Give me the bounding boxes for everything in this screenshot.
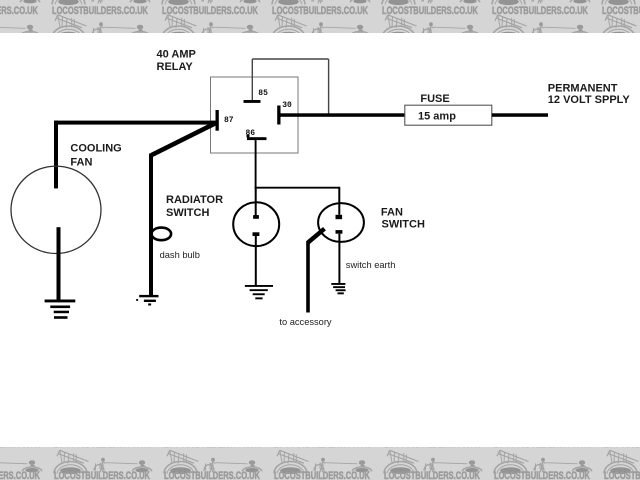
svg-text:LOCOSTBUILDERS.CO.UK: LOCOSTBUILDERS.CO.UK — [272, 3, 368, 16]
svg-text:FUSE: FUSE — [420, 93, 449, 105]
wire pin 86 down — [255, 140, 257, 188]
wire into radiator thermo switch S1 — [255, 188, 257, 216]
svg-text:85: 85 — [258, 89, 268, 98]
svg-text:12 VOLT SPPLY: 12 VOLT SPPLY — [548, 94, 631, 106]
svg-text:87: 87 — [224, 116, 234, 125]
wire pin 30 to fuse — [281, 113, 406, 117]
ground radiator switch — [136, 295, 158, 306]
ground cooling fan — [45, 300, 76, 319]
wire into fan switch S2 — [338, 188, 340, 215]
fan switch S2 circle — [318, 203, 364, 242]
svg-text:COOLING: COOLING — [70, 142, 121, 154]
svg-text:dash bulb: dash bulb — [160, 250, 200, 260]
S1 top contact — [253, 215, 259, 219]
watermark banner top — [0, 0, 640, 39]
svg-text:15 amp: 15 amp — [418, 111, 456, 123]
wire coil loop: pin 85 up — [251, 59, 253, 100]
wire fuse to permanent supply — [492, 113, 548, 117]
svg-text:RELAY: RELAY — [157, 61, 194, 73]
wire to accessory diagonal — [308, 229, 325, 243]
svg-text:RADIATOR: RADIATOR — [166, 194, 223, 206]
relay pin 85 — [244, 89, 269, 103]
wire horizontal branch to fan switch — [255, 187, 341, 189]
wire cooling fan bottom lead — [57, 227, 61, 300]
wire S2 bottom to ground — [338, 234, 340, 284]
svg-text:LOCOSTBUILDERS.CO.UK: LOCOSTBUILDERS.CO.UK — [492, 3, 588, 16]
svg-text:40 AMP: 40 AMP — [157, 49, 196, 61]
svg-text:LOCOSTBUILDERS.CO.UK: LOCOSTBUILDERS.CO.UK — [162, 3, 258, 16]
relay pin 30 — [277, 101, 292, 124]
wire loop top horizontal — [252, 58, 328, 60]
svg-text:SWITCH: SWITCH — [166, 207, 209, 219]
svg-text:PERMANENT: PERMANENT — [548, 83, 618, 95]
svg-text:30: 30 — [282, 101, 292, 110]
svg-text:LOCOSTBUILDERS.CO.UK: LOCOSTBUILDERS.CO.UK — [602, 3, 640, 16]
fuse F1 body — [405, 105, 492, 125]
svg-text:LOCOSTBUILDERS.CO.UK: LOCOSTBUILDERS.CO.UK — [274, 469, 370, 480]
svg-text:LOCOSTBUILDERS.CO.UK: LOCOSTBUILDERS.CO.UK — [604, 469, 640, 480]
svg-text:LOCOSTBUILDERS.CO.UK: LOCOSTBUILDERS.CO.UK — [0, 469, 40, 480]
wire S1 bottom to ground — [255, 236, 257, 286]
relay pin 86 — [246, 129, 267, 140]
svg-text:LOCOSTBUILDERS.CO.UK: LOCOSTBUILDERS.CO.UK — [0, 3, 38, 16]
ground thermo switch S1 — [245, 285, 273, 299]
dash bulb lamp DS1 — [152, 228, 172, 241]
svg-text:FAN: FAN — [381, 207, 403, 219]
svg-text:LOCOSTBUILDERS.CO.UK: LOCOSTBUILDERS.CO.UK — [384, 469, 480, 480]
wire pin 87 diagonal to radiator switch — [151, 123, 215, 155]
S1 bottom contact — [253, 232, 260, 236]
svg-text:FAN: FAN — [70, 156, 92, 168]
wire vertical down into cooling fan — [54, 121, 58, 189]
svg-text:LOCOSTBUILDERS.CO.UK: LOCOSTBUILDERS.CO.UK — [52, 3, 148, 16]
cooling fan M1 circle — [11, 166, 101, 253]
relay pin 87 — [216, 110, 234, 131]
wire radiator switch vertical — [149, 154, 153, 297]
relay U1 (40 AMP RELAY) body — [211, 77, 299, 153]
wire to accessory vertical — [306, 241, 310, 313]
ground fan switch S2 — [331, 283, 345, 294]
wire pin 87 to cooling fan (horizontal) — [54, 121, 216, 125]
watermark banner bottom — [0, 437, 640, 480]
svg-text:LOCOSTBUILDERS.CO.UK: LOCOSTBUILDERS.CO.UK — [54, 469, 150, 480]
S2 bottom contact — [336, 230, 343, 234]
svg-text:switch earth: switch earth — [346, 260, 396, 270]
wire loop right vertical down to supply net — [328, 59, 330, 116]
S2 top contact — [336, 215, 343, 219]
svg-text:to accessory: to accessory — [279, 317, 332, 327]
svg-text:LOCOSTBUILDERS.CO.UK: LOCOSTBUILDERS.CO.UK — [382, 3, 478, 16]
svg-text:86: 86 — [246, 129, 256, 138]
svg-text:LOCOSTBUILDERS.CO.UK: LOCOSTBUILDERS.CO.UK — [494, 469, 590, 480]
svg-text:LOCOSTBUILDERS.CO.UK: LOCOSTBUILDERS.CO.UK — [164, 469, 260, 480]
thermo switch S1 circle — [233, 202, 279, 246]
svg-text:SWITCH: SWITCH — [382, 219, 425, 231]
